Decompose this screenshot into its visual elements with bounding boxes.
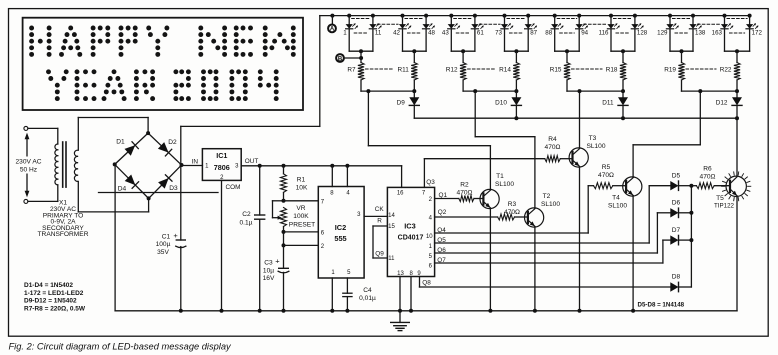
capacitor C1 [176, 240, 186, 248]
svg-text:R2: R2 [460, 182, 469, 189]
resistor R12 [460, 63, 466, 92]
LED pair 116-128 [607, 14, 643, 63]
svg-text:D4: D4 [118, 185, 127, 192]
svg-text:88: 88 [545, 29, 552, 36]
svg-text:87: 87 [530, 29, 537, 36]
svg-text:470Ω: 470Ω [700, 174, 716, 181]
wire Q6 to D6 [435, 213, 671, 253]
diode D5 [670, 181, 691, 190]
svg-text:R1: R1 [297, 177, 306, 184]
svg-text:IC1: IC1 [216, 151, 227, 160]
label Q2 [438, 209, 447, 216]
svg-text:470Ω: 470Ω [598, 172, 614, 179]
wire Q5 to D5 [435, 186, 671, 243]
label Q7 [437, 257, 446, 264]
svg-text:13: 13 [397, 271, 404, 277]
svg-text:R22: R22 [720, 66, 732, 73]
svg-text:43: 43 [442, 29, 449, 36]
svg-text:SL100: SL100 [586, 143, 605, 150]
svg-text:R7-R8 = 220Ω, 0.5W: R7-R8 = 220Ω, 0.5W [24, 305, 86, 312]
resistor R18 [620, 63, 626, 92]
bridge rectifier wires [115, 133, 182, 198]
svg-text:1: 1 [343, 29, 347, 36]
wire IC2 pin4 to rail [346, 166, 348, 187]
transistor T3 SL100 [569, 148, 588, 167]
svg-text:Q1: Q1 [439, 192, 448, 199]
LED supply rail [320, 15, 750, 17]
svg-text:Q5: Q5 [437, 237, 446, 244]
transistor T5 TIP122 with heatsink [722, 172, 751, 201]
svg-text:Q7: Q7 [437, 257, 446, 264]
svg-text:D1: D1 [116, 139, 125, 146]
section rail 2 [463, 89, 518, 93]
stray crossing line [99, 192, 219, 194]
parts notes [24, 282, 86, 312]
label D11 [602, 100, 614, 107]
svg-text:T3: T3 [589, 135, 597, 142]
wire IC2 pin1 to ground [331, 278, 333, 311]
regulator IC1 7806 [202, 149, 241, 181]
LED numbers 43 61 [442, 29, 484, 36]
wire T1 collector to LED section1 [368, 91, 490, 190]
wire T4 collector to LED section4 [633, 91, 700, 177]
svg-text:16V: 16V [263, 275, 275, 282]
transistor T4 SL100 [623, 177, 642, 196]
svg-text:D3: D3 [169, 185, 178, 192]
svg-text:IC3: IC3 [404, 221, 416, 230]
svg-text:R3: R3 [508, 201, 517, 208]
wire secondary top to bridge [78, 118, 148, 151]
junction section2 tap [473, 89, 477, 93]
svg-text:116: 116 [599, 29, 609, 36]
label Q3 [426, 179, 435, 186]
svg-text:94: 94 [581, 29, 588, 36]
note D5-D8 [638, 302, 685, 309]
wire bridge negative to ground rail [114, 164, 116, 310]
svg-text:T5: T5 [716, 195, 724, 202]
svg-text:129: 129 [657, 29, 668, 36]
label C2 0.1u [240, 211, 253, 227]
LED pair 1-11 [346, 14, 382, 63]
LED pair 88-94 [551, 14, 588, 63]
svg-text:470Ω: 470Ω [457, 190, 473, 197]
svg-text:R4: R4 [548, 136, 557, 143]
svg-text:IN: IN [192, 159, 199, 166]
svg-text:7806: 7806 [214, 163, 230, 172]
label D7 [672, 227, 681, 234]
dashed continuation 11 to next [377, 23, 398, 25]
svg-text:R19: R19 [664, 66, 676, 73]
LED pair 43-61 [448, 14, 484, 63]
svg-text:PRESET: PRESET [289, 221, 315, 228]
label Q8 [422, 279, 431, 286]
wire tap to IC2 pin2 [284, 244, 319, 246]
svg-text:D9: D9 [397, 100, 406, 107]
wire Q4 [435, 186, 589, 233]
svg-text:C1: C1 [162, 233, 171, 240]
label C4 0.01u [359, 287, 376, 302]
svg-text:10K: 10K [296, 184, 308, 191]
svg-text:Q2: Q2 [438, 209, 447, 216]
wire T2 collector to LED section2 [475, 91, 535, 208]
svg-text:11: 11 [375, 29, 382, 36]
wire IC2 pin8 to rail [331, 166, 333, 187]
svg-text:470Ω: 470Ω [545, 144, 561, 151]
svg-text:T2: T2 [543, 193, 551, 200]
svg-text:R7: R7 [347, 66, 356, 73]
wire mains top [28, 128, 58, 144]
svg-text:D2: D2 [168, 139, 177, 146]
diode D11 [618, 91, 628, 118]
label Q6 [437, 247, 446, 254]
wire T1 emitter to ground [489, 208, 491, 311]
svg-text:128: 128 [637, 29, 648, 36]
label D5 [672, 172, 681, 179]
wire Q7 to D7 [435, 240, 671, 263]
diode D7 [670, 235, 691, 244]
capacitor C4 on pin5 [343, 278, 352, 311]
LED pair 42-48 [399, 14, 435, 63]
labels R12 R14 [446, 66, 511, 73]
LED numbers 116 128 [599, 29, 648, 36]
wire mains bottom [28, 185, 58, 202]
svg-text:Q4: Q4 [437, 227, 446, 234]
svg-text:R18: R18 [606, 66, 618, 73]
svg-text:10µ: 10µ [263, 267, 274, 274]
label CK [375, 206, 385, 213]
LED numbers 163 172 [712, 29, 763, 36]
junction OUT rail [258, 164, 350, 168]
svg-text:C3: C3 [264, 260, 273, 267]
svg-text:138: 138 [695, 29, 706, 36]
label D9 [397, 100, 406, 107]
svg-text:16: 16 [397, 190, 404, 196]
transistor T1 SL100 [480, 189, 499, 208]
IC2 pin labels [321, 191, 361, 276]
wire Q1 [435, 198, 459, 200]
label T4 SL100 [608, 195, 627, 210]
svg-text:D6: D6 [672, 200, 681, 207]
svg-text:R14: R14 [499, 66, 511, 73]
svg-text:470Ω: 470Ω [504, 209, 520, 216]
resistor R15 [564, 63, 570, 92]
svg-text:1-172 = LED1-LED2: 1-172 = LED1-LED2 [24, 290, 84, 297]
wire T2 emitter to ground [534, 227, 536, 311]
diode D10 [511, 91, 521, 118]
svg-text:T1: T1 [496, 173, 504, 180]
svg-text:TRANSFORMER: TRANSFORMER [38, 231, 89, 238]
LED numbers 73 87 [495, 29, 538, 36]
ground rail [115, 310, 737, 312]
junction section4 tap [698, 89, 702, 93]
svg-text:35V: 35V [157, 249, 169, 256]
diode D8 [670, 282, 691, 291]
svg-text:SL100: SL100 [541, 201, 560, 208]
label T1 SL100 [495, 173, 514, 188]
caption [9, 342, 233, 352]
wire VR top to IC2 pin7 [284, 200, 319, 202]
counter IC3 CD4017 [387, 187, 434, 276]
svg-text:61: 61 [477, 29, 484, 36]
svg-text:D9-D12 = 1N5402: D9-D12 = 1N5402 [24, 298, 77, 305]
preset VR 100K [273, 201, 287, 227]
LED pair 129-138 [666, 14, 701, 63]
label T3 SL100 [586, 135, 605, 150]
transistor T2 SL100 [525, 208, 544, 227]
junction pin2 tap [282, 243, 286, 247]
svg-text:D7: D7 [672, 227, 681, 234]
label R [377, 217, 382, 224]
labels R19 R22 [664, 66, 732, 73]
label C1 100u 35V [156, 231, 179, 256]
transformer X1 core [63, 142, 66, 187]
wire T3 collector to LED section3 [579, 91, 581, 148]
label IN pin 1 [192, 159, 210, 170]
label R6 470 [700, 166, 716, 181]
label X1 transformer [38, 200, 89, 239]
resistor R5 470 [588, 183, 626, 189]
label D12 [716, 100, 728, 107]
label R2 470 [457, 182, 473, 197]
wire T5 collector to diode bus [736, 118, 738, 176]
svg-text:73: 73 [495, 29, 502, 36]
svg-text:48: 48 [428, 29, 435, 36]
label Q9 [375, 250, 384, 257]
diode D2 [158, 142, 172, 156]
dot-matrix text HAPPY NEW [29, 26, 296, 57]
dashed continuation 94 to next [584, 23, 607, 25]
resistor R11 [411, 63, 417, 92]
svg-text:CD4017: CD4017 [398, 234, 424, 241]
svg-text:R12: R12 [446, 66, 458, 73]
svg-text:172: 172 [752, 29, 763, 36]
LED pair 163-172 [721, 14, 759, 63]
resistor R2 470 [459, 196, 484, 202]
ground rail junctions [179, 309, 635, 313]
svg-text:T4: T4 [612, 195, 620, 202]
AC input terminal top [24, 126, 28, 130]
svg-text:Fig. 2: Circuit diagram of LED: Fig. 2: Circuit diagram of LED-based mes… [9, 342, 233, 352]
transformer X1 primary winding [55, 144, 58, 185]
wire IC3 R to Q9 [373, 226, 387, 258]
svg-text:+: + [275, 257, 280, 266]
svg-text:Q3: Q3 [426, 179, 435, 186]
label D3 [169, 185, 178, 192]
svg-text:D8: D8 [672, 274, 681, 281]
junction VR bottom [282, 230, 286, 234]
svg-text:VR: VR [296, 205, 305, 212]
svg-text:D5: D5 [672, 172, 681, 179]
wire T5 emitter to ground [736, 196, 738, 311]
svg-text:100K: 100K [293, 213, 309, 220]
label Q4 [437, 227, 446, 234]
svg-text:Q6: Q6 [437, 247, 446, 254]
svg-text:555: 555 [334, 234, 346, 243]
svg-text:IC2: IC2 [335, 223, 347, 232]
wire bridge positive to LED rail [181, 16, 320, 165]
svg-text:42: 42 [393, 29, 400, 36]
svg-text:100µ: 100µ [156, 241, 171, 248]
junction section3 tap [578, 89, 582, 93]
label COM pin 2 [220, 175, 240, 191]
diode D9 [409, 91, 419, 118]
svg-text:+: + [173, 231, 178, 240]
svg-text:D1-D4 = 1N5402: D1-D4 = 1N5402 [24, 282, 73, 289]
LED numbers 42 48 [393, 29, 435, 36]
svg-text:0.1µ: 0.1µ [240, 220, 253, 227]
wire bridge positive to IC1 IN [182, 165, 203, 167]
svg-text:C4: C4 [363, 287, 372, 294]
label T5 TIP122 [714, 195, 735, 210]
label D6 [672, 200, 681, 207]
wire Q8 from pin9 [420, 277, 672, 288]
label Q1 [439, 192, 448, 199]
label R3 470 [504, 201, 520, 216]
label D4 [118, 185, 127, 192]
capacitor C3 [278, 245, 289, 310]
label D1 [116, 139, 125, 146]
junction section1 tap [366, 89, 370, 93]
resistor R19 [678, 63, 684, 92]
wire T4 emitter to ground [632, 196, 634, 311]
label D8 [672, 274, 681, 281]
label D2 [168, 139, 177, 146]
diode D12 [732, 91, 742, 118]
IC3 pin labels [388, 190, 433, 276]
node B [336, 54, 363, 62]
section rail 3 [567, 89, 625, 93]
svg-text:SL100: SL100 [608, 203, 627, 210]
label Q5 [437, 237, 446, 244]
resistor R1 10K [281, 166, 287, 201]
svg-text:A: A [330, 27, 335, 33]
dashed continuation 138 to next [698, 23, 721, 25]
section rail 1 [361, 89, 416, 93]
230V AC 50Hz arrow [25, 133, 30, 198]
timer IC2 555 [318, 187, 364, 279]
svg-text:163: 163 [712, 29, 723, 36]
resistor R3 470 [498, 214, 528, 220]
svg-text:OUT: OUT [245, 158, 259, 165]
svg-text:R15: R15 [550, 66, 562, 73]
wire IC2 pin3 to IC3 CK [364, 215, 387, 217]
dot-matrix text YEAR 2004 [46, 69, 279, 101]
LED pair 73-87 [501, 14, 537, 63]
LED numbers 88 94 [545, 29, 588, 36]
diode OR bus [689, 184, 693, 287]
label R5 470 [598, 164, 614, 179]
LED message display box [23, 18, 303, 110]
labels R15 R18 [550, 66, 618, 73]
svg-text:10: 10 [426, 234, 433, 240]
labels R7 R11 [347, 66, 409, 73]
svg-text:50 Hz: 50 Hz [20, 167, 37, 174]
wire bridge positive down to C1 [180, 165, 182, 311]
wire IC3 pin8 to ground [410, 277, 412, 311]
svg-text:D5-D8 = 1N4148: D5-D8 = 1N4148 [638, 302, 685, 309]
AC input terminal bottom [24, 199, 28, 203]
label C3 10u 16V [263, 257, 281, 282]
svg-text:0,01µ: 0,01µ [359, 295, 376, 302]
resistor R6 470 [691, 183, 730, 189]
label OUT pin 3 [235, 158, 258, 169]
resistor R4 470 [545, 156, 573, 162]
svg-text:Q9: Q9 [375, 250, 384, 257]
node A [328, 14, 336, 33]
diode D1 [125, 142, 139, 156]
wire Q2 [435, 216, 498, 218]
svg-text:230V AC: 230V AC [15, 159, 41, 166]
svg-text:C2: C2 [242, 211, 251, 218]
wire T3 emitter to ground [579, 167, 581, 311]
label 230V AC 50 Hz [15, 157, 43, 174]
svg-text:11: 11 [388, 256, 395, 262]
section rail 4 [682, 89, 740, 93]
svg-text:TIP122: TIP122 [714, 202, 735, 209]
diode D6 [670, 208, 691, 217]
svg-text:D11: D11 [602, 100, 614, 107]
svg-text:R5: R5 [602, 164, 611, 171]
svg-text:R6: R6 [703, 166, 712, 173]
dashed continuation 61 to next [479, 23, 500, 25]
label D10 [495, 100, 507, 107]
svg-text:15: 15 [388, 224, 395, 230]
junction VR top [282, 199, 286, 203]
label VR 100K PRESET [289, 205, 315, 229]
diode D4 [125, 175, 139, 189]
svg-text:14: 14 [388, 213, 395, 219]
transformer X1 secondary winding [74, 150, 77, 181]
label R1 10K [296, 177, 308, 192]
LED numbers 129 138 [657, 29, 706, 36]
resistor R14 [513, 63, 519, 92]
ground symbol [391, 311, 410, 331]
wire IC3 pin13 to ground [399, 277, 401, 311]
resistor R22 [734, 63, 740, 92]
svg-text:CK: CK [375, 206, 385, 213]
label T2 SL100 [541, 193, 560, 208]
wire IC1 COM to ground [221, 180, 223, 310]
label R4 470 [545, 136, 561, 151]
+6V rail from IC1 OUT [241, 166, 401, 188]
wire VR bottom to IC2 pin6 [284, 227, 319, 246]
svg-text:B: B [338, 56, 343, 62]
svg-text:D10: D10 [495, 100, 507, 107]
diode D3 [158, 175, 172, 189]
diode cathode bus D9-D12 [414, 116, 739, 120]
capacitor C2 [255, 166, 265, 311]
wire Q3 to R4 [424, 159, 544, 188]
wire secondary bottom to bridge [78, 181, 148, 212]
svg-text:D12: D12 [716, 100, 728, 107]
svg-text:R: R [377, 217, 382, 224]
LED numbers 1 11 [343, 29, 382, 36]
svg-text:SL100: SL100 [495, 181, 514, 188]
svg-text:R11: R11 [398, 66, 410, 73]
bridge corner junctions [113, 131, 184, 200]
svg-text:COM: COM [226, 184, 241, 191]
svg-text:Q8: Q8 [422, 279, 431, 286]
resistor R7 [358, 63, 364, 92]
